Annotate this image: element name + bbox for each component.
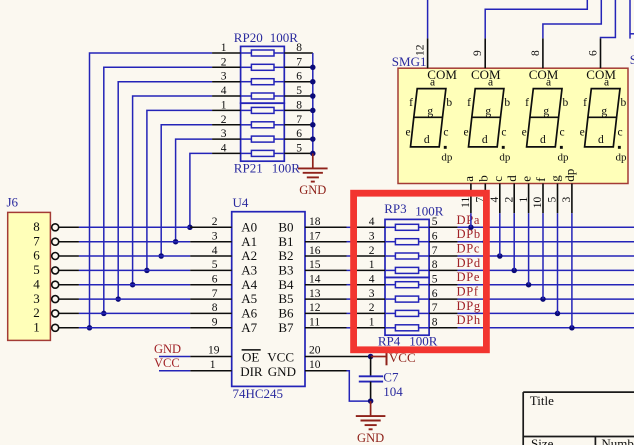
wire segment pin e down to net DPe xyxy=(528,213,530,285)
svg-text:3: 3 xyxy=(221,71,227,83)
J6 pin 1 xyxy=(33,319,79,334)
SMG1 segment pin 4 (c) xyxy=(489,176,505,213)
RP3 resistor element pin 3/6 xyxy=(357,231,458,245)
resistor pack RP3 xyxy=(384,201,444,278)
RP21 resistor element pin 2/7 xyxy=(212,114,313,128)
wire J6 pin 2 to RP20 pin 2 xyxy=(104,67,212,313)
svg-text:f: f xyxy=(409,97,413,109)
wire segment pin a down to net DPa xyxy=(470,213,472,227)
svg-text:b: b xyxy=(446,97,452,109)
svg-text:7: 7 xyxy=(296,114,302,126)
svg-text:a: a xyxy=(461,176,476,182)
svg-text:c: c xyxy=(443,127,448,139)
svg-text:DPh: DPh xyxy=(457,313,481,327)
svg-text:4: 4 xyxy=(221,142,227,154)
wire COM4 xyxy=(601,0,616,38)
RP3 resistor element pin 1/8 xyxy=(357,259,458,273)
svg-text:4: 4 xyxy=(33,276,40,291)
svg-text:4: 4 xyxy=(489,197,501,203)
U4 pin 4 A2 xyxy=(190,245,257,263)
junction DPc / display segment pin xyxy=(497,253,503,259)
RP4 resistor element pin 2/7 xyxy=(357,302,458,316)
svg-text:7: 7 xyxy=(33,233,40,248)
U4 pin 3 A1 xyxy=(190,231,257,249)
J6 pin 8 xyxy=(33,219,79,234)
svg-text:3: 3 xyxy=(221,128,227,140)
svg-text:19: 19 xyxy=(208,345,220,357)
svg-text:B1: B1 xyxy=(278,234,293,249)
svg-text:104: 104 xyxy=(383,384,403,399)
svg-text:g: g xyxy=(427,106,433,118)
wire RP20/RP21 output bus to GND xyxy=(312,53,314,153)
title block xyxy=(523,392,634,445)
svg-text:Size: Size xyxy=(531,436,554,445)
junction DPg / display segment pin xyxy=(555,311,561,317)
svg-text:8: 8 xyxy=(432,317,438,329)
7-segment digit 2 xyxy=(464,77,511,164)
svg-text:OE: OE xyxy=(242,350,259,365)
wire J6 pin 5 to RP21 pin 1 xyxy=(147,110,212,270)
ground GND (bottom) xyxy=(356,401,386,445)
svg-text:g: g xyxy=(485,106,491,118)
wire U4 B5 to RP pack xyxy=(347,298,357,300)
svg-text:RP20: RP20 xyxy=(234,30,263,45)
svg-text:2: 2 xyxy=(503,197,515,203)
svg-text:d: d xyxy=(504,175,519,182)
svg-text:6: 6 xyxy=(33,248,40,263)
U4 pin 11 B7 xyxy=(278,317,346,335)
RP20 resistor element pin 3/6 xyxy=(212,71,313,85)
SMG1 segment pin 5 (g) xyxy=(547,175,563,213)
U4 pin 6 A4 xyxy=(190,274,257,292)
svg-text:5: 5 xyxy=(296,85,302,97)
svg-text:7: 7 xyxy=(212,288,218,300)
J6 pin 4 xyxy=(33,276,79,291)
RP21 resistor element pin 1/8 xyxy=(212,99,313,113)
svg-text:d: d xyxy=(424,134,430,146)
wire net DPb xyxy=(458,241,634,243)
RP3 resistor element pin 4/5 xyxy=(357,216,458,230)
connector J6 xyxy=(7,194,51,340)
svg-text:DPc: DPc xyxy=(457,242,481,256)
wire COM3 xyxy=(543,0,601,38)
U4 pin 5 A3 xyxy=(190,259,257,277)
wire segment pin g down to net DPg xyxy=(557,213,559,313)
J6 pin 3 xyxy=(33,291,79,306)
wire U4 B1 to RP pack xyxy=(347,241,357,243)
SMG1 COM pin 9 xyxy=(471,38,501,81)
svg-text:VCC: VCC xyxy=(154,356,180,370)
svg-text:1: 1 xyxy=(369,317,375,329)
svg-text:6: 6 xyxy=(588,50,600,56)
svg-text:A0: A0 xyxy=(241,219,257,234)
7-segment digit 1 xyxy=(406,77,453,164)
svg-text:d: d xyxy=(598,134,604,146)
svg-text:5: 5 xyxy=(296,142,302,154)
svg-text:a: a xyxy=(430,77,435,89)
wire segment pin f down to net DPf xyxy=(542,213,544,299)
wire net DPe xyxy=(458,284,634,286)
U4 pin 7 A5 xyxy=(190,288,257,306)
wire J6 pin 7 to RP21 pin 3 xyxy=(176,139,213,242)
svg-text:15: 15 xyxy=(309,259,321,271)
svg-text:B7: B7 xyxy=(278,320,294,335)
svg-text:2: 2 xyxy=(221,56,227,68)
resistor pack RP20 xyxy=(234,30,298,103)
svg-text:4: 4 xyxy=(369,216,375,228)
svg-text:a: a xyxy=(546,77,551,89)
U4 pin 13 B5 xyxy=(278,288,346,306)
U4 pin 17 B1 xyxy=(278,231,346,249)
svg-text:U4: U4 xyxy=(233,195,249,210)
svg-text:8: 8 xyxy=(530,50,542,56)
display SMG1 body xyxy=(392,54,628,184)
svg-text:12: 12 xyxy=(309,302,321,314)
wire J6 pin 3 to U4 A5 xyxy=(79,298,190,300)
junction on J6 row xyxy=(101,311,107,317)
wire U4 B3 to RP pack xyxy=(347,269,357,271)
J6 pin 7 xyxy=(33,233,79,248)
svg-text:dp: dp xyxy=(499,151,511,163)
svg-text:7: 7 xyxy=(432,245,438,257)
wire U4 B6 to RP pack xyxy=(347,312,357,314)
svg-text:1: 1 xyxy=(221,99,227,111)
RP21 resistor element pin 4/5 xyxy=(212,142,313,156)
SMG1 segment pin 7 (b) xyxy=(475,175,491,213)
svg-text:e: e xyxy=(406,127,411,139)
svg-text:J6: J6 xyxy=(7,194,19,209)
svg-text:B4: B4 xyxy=(278,277,294,292)
wire U4 B0 to RP pack xyxy=(347,226,357,228)
RP4 resistor element pin 1/8 xyxy=(357,317,458,331)
RP4 resistor element pin 4/5 xyxy=(357,274,458,288)
wire U4 B2 to RP pack xyxy=(347,255,357,257)
svg-text:3: 3 xyxy=(369,288,375,300)
junction RP bus xyxy=(310,122,316,128)
svg-text:2: 2 xyxy=(369,245,375,257)
svg-text:4: 4 xyxy=(212,245,218,257)
svg-text:8: 8 xyxy=(296,99,302,111)
junction RP bus xyxy=(310,108,316,114)
svg-text:A6: A6 xyxy=(241,306,257,321)
svg-text:5: 5 xyxy=(432,216,438,228)
svg-text:6: 6 xyxy=(296,128,302,140)
junction RP bus xyxy=(310,65,316,71)
svg-text:e: e xyxy=(580,127,585,139)
svg-text:f: f xyxy=(467,97,471,109)
svg-text:3: 3 xyxy=(212,231,218,243)
wire J6 pin 5 to U4 A3 xyxy=(79,269,190,271)
U4 pin 8 A6 xyxy=(190,302,257,320)
svg-text:11: 11 xyxy=(460,197,472,208)
wire COM2 xyxy=(485,0,587,38)
svg-text:8: 8 xyxy=(432,259,438,271)
U4 pin 18 B0 xyxy=(278,216,346,234)
wire J6 pin 1 to U4 A7 xyxy=(79,327,190,329)
junction on J6 row xyxy=(173,239,179,245)
wire J6 pin 1 to RP20 pin 1 xyxy=(90,53,213,328)
svg-text:A1: A1 xyxy=(241,234,257,249)
wire net DPf xyxy=(458,298,634,300)
svg-text:7: 7 xyxy=(432,302,438,314)
RP20 resistor element pin 4/5 xyxy=(212,85,313,99)
svg-text:5: 5 xyxy=(432,274,438,286)
U4 pin 2 A0 xyxy=(190,216,257,234)
svg-text:S: S xyxy=(630,52,634,67)
svg-text:b: b xyxy=(504,97,510,109)
svg-text:C7: C7 xyxy=(383,369,399,384)
wire J6 pin 7 to U4 A1 xyxy=(79,241,190,243)
svg-text:DPe: DPe xyxy=(457,270,481,284)
power port VCC xyxy=(371,350,416,365)
svg-text:DPa: DPa xyxy=(457,213,481,227)
wire segment pin d down to net DPd xyxy=(513,213,515,270)
wire to SMG2 xyxy=(629,0,631,39)
svg-text:16: 16 xyxy=(309,245,321,257)
svg-text:g: g xyxy=(601,106,607,118)
svg-text:GND: GND xyxy=(268,364,296,379)
svg-text:DPg: DPg xyxy=(457,299,481,313)
svg-text:10: 10 xyxy=(309,359,321,371)
wire net GND to U4 OE xyxy=(159,356,190,358)
SMG1 segment pin 11 (a) xyxy=(460,176,476,213)
svg-text:20: 20 xyxy=(309,345,321,357)
svg-text:4: 4 xyxy=(221,85,227,97)
svg-text:9: 9 xyxy=(472,50,484,56)
svg-text:c: c xyxy=(501,127,506,139)
svg-text:DPf: DPf xyxy=(457,285,479,299)
svg-text:DPd: DPd xyxy=(457,256,481,270)
svg-text:1: 1 xyxy=(518,197,530,203)
svg-text:3: 3 xyxy=(369,231,375,243)
svg-text:b: b xyxy=(563,97,569,109)
svg-text:12: 12 xyxy=(415,44,427,56)
svg-text:dp: dp xyxy=(616,151,628,163)
SMG1 segment pin 1 (e) xyxy=(518,176,534,213)
svg-text:b: b xyxy=(475,175,490,182)
U4 pin 16 B2 xyxy=(278,245,346,263)
svg-text:8: 8 xyxy=(33,219,40,234)
svg-text:d: d xyxy=(540,134,546,146)
svg-text:1: 1 xyxy=(221,42,227,54)
wire segment pin dp down to net DPh xyxy=(571,213,573,328)
SMG1 COM pin 6 xyxy=(586,38,616,81)
junction RP bus xyxy=(310,79,316,85)
RP21 resistor element pin 3/6 xyxy=(212,128,313,142)
svg-text:11: 11 xyxy=(309,317,320,329)
junction RP bus xyxy=(310,151,316,157)
svg-text:A3: A3 xyxy=(241,263,257,278)
svg-text:DPb: DPb xyxy=(457,227,481,241)
junction on J6 row xyxy=(130,282,136,288)
junction RP bus xyxy=(310,136,316,142)
wire J6 pin 4 to U4 A4 xyxy=(79,284,190,286)
svg-text:B0: B0 xyxy=(278,219,293,234)
svg-text:A5: A5 xyxy=(241,291,257,306)
U4 pin 12 B6 xyxy=(278,302,346,320)
wire segment pin c down to net DPc xyxy=(499,213,501,256)
wire J6 pin 4 to RP20 pin 4 xyxy=(133,96,213,285)
SMG1 segment pin 2 (d) xyxy=(503,175,519,213)
junction DPh / display segment pin xyxy=(569,325,575,331)
svg-text:1: 1 xyxy=(210,359,216,371)
ground GND (top, RP bus) xyxy=(298,153,328,197)
svg-text:6: 6 xyxy=(296,71,302,83)
svg-text:100R: 100R xyxy=(270,30,299,45)
svg-text:c: c xyxy=(559,127,564,139)
wire net DPa xyxy=(458,226,634,228)
svg-text:1: 1 xyxy=(369,259,375,271)
svg-text:c: c xyxy=(490,176,505,182)
svg-text:B3: B3 xyxy=(278,263,293,278)
svg-text:5: 5 xyxy=(547,197,559,203)
wire segment pin b down to net DPb xyxy=(484,213,486,242)
U4 pin 14 B4 xyxy=(278,274,346,292)
wire U4 pin10 to GND node xyxy=(347,371,371,401)
svg-text:COM: COM xyxy=(529,67,559,82)
SMG1 segment pin 3 (dp) xyxy=(561,169,577,213)
svg-text:A2: A2 xyxy=(241,248,257,263)
svg-text:B6: B6 xyxy=(278,306,294,321)
red highlight box around RP3/RP4 xyxy=(354,193,487,350)
U4 pin 9 A7 xyxy=(190,317,257,335)
SMG1 segment pin 10 (f) xyxy=(532,177,548,213)
junction DPa / display segment pin xyxy=(468,225,474,231)
wire U4 B4 to RP pack xyxy=(347,284,357,286)
resistor pack RP21 xyxy=(234,103,300,175)
svg-text:10: 10 xyxy=(532,197,544,209)
wire net DPh xyxy=(458,327,634,329)
svg-text:COM: COM xyxy=(471,67,501,82)
capacitor C7 104 xyxy=(359,357,404,402)
junction on J6 row xyxy=(187,225,193,231)
junction VCC node xyxy=(368,354,374,360)
svg-text:Title: Title xyxy=(530,393,554,408)
wire net DPd xyxy=(458,269,634,271)
junction DPe / display segment pin xyxy=(526,282,532,288)
wire net DPg xyxy=(458,312,634,314)
svg-text:2: 2 xyxy=(369,302,375,314)
7-segment digit 3 xyxy=(522,77,569,164)
svg-text:f: f xyxy=(525,97,529,109)
U4 pin 19 OE xyxy=(190,345,261,365)
svg-text:e: e xyxy=(464,127,469,139)
svg-text:5: 5 xyxy=(33,262,40,277)
svg-text:c: c xyxy=(617,127,622,139)
wire U4 pin20 to VCC node xyxy=(347,356,371,358)
svg-text:DIR: DIR xyxy=(240,364,263,379)
svg-text:dp: dp xyxy=(562,169,577,182)
junction DPf / display segment pin xyxy=(540,296,546,302)
junction GND node xyxy=(368,398,374,404)
svg-text:B2: B2 xyxy=(278,248,293,263)
wire net VCC to U4 DIR xyxy=(159,370,190,372)
U4 pin 1 DIR xyxy=(190,359,263,379)
svg-text:6: 6 xyxy=(432,231,438,243)
svg-text:Number: Number xyxy=(601,436,634,445)
wire J6 pin 6 to U4 A2 xyxy=(79,255,190,257)
svg-text:g: g xyxy=(543,106,549,118)
svg-text:GND: GND xyxy=(154,342,181,356)
svg-text:8: 8 xyxy=(212,302,218,314)
svg-text:dp: dp xyxy=(558,151,570,163)
RP20 resistor element pin 1/8 xyxy=(212,42,313,56)
RP20 resistor element pin 2/7 xyxy=(212,56,313,70)
svg-text:3: 3 xyxy=(561,197,573,203)
svg-text:e: e xyxy=(519,176,534,182)
svg-text:7: 7 xyxy=(296,56,302,68)
wire COM1 to top edge xyxy=(427,0,429,38)
junction RP bus xyxy=(310,93,316,99)
svg-text:RP3: RP3 xyxy=(384,201,406,216)
resistor pack RP4 xyxy=(378,277,438,348)
svg-text:1: 1 xyxy=(33,319,40,334)
svg-text:e: e xyxy=(522,127,527,139)
J6 pin 2 xyxy=(33,305,79,320)
U4 pin 15 B3 xyxy=(278,259,346,277)
SMG1 COM pin 12 xyxy=(415,38,458,81)
svg-text:GND: GND xyxy=(357,431,384,445)
svg-text:74HC245: 74HC245 xyxy=(233,386,284,401)
svg-text:8: 8 xyxy=(296,42,302,54)
junction DPb / display segment pin xyxy=(483,239,489,245)
RP3 resistor element pin 2/7 xyxy=(357,245,458,259)
J6 pin 6 xyxy=(33,248,79,263)
junction on J6 row xyxy=(158,253,164,259)
svg-text:6: 6 xyxy=(212,274,218,286)
svg-text:A7: A7 xyxy=(241,320,257,335)
RP4 resistor element pin 3/6 xyxy=(357,288,458,302)
svg-text:13: 13 xyxy=(309,288,321,300)
wire J6 pin 8 to RP21 pin 4 xyxy=(190,153,212,227)
svg-text:A4: A4 xyxy=(241,277,257,292)
svg-text:f: f xyxy=(583,97,587,109)
svg-text:b: b xyxy=(621,97,627,109)
svg-text:5: 5 xyxy=(212,259,218,271)
svg-text:B5: B5 xyxy=(278,291,293,306)
svg-text:a: a xyxy=(488,77,493,89)
svg-text:9: 9 xyxy=(212,317,218,329)
svg-text:VCC: VCC xyxy=(267,350,294,365)
junction on J6 row xyxy=(87,325,93,331)
svg-text:a: a xyxy=(604,77,609,89)
svg-text:17: 17 xyxy=(309,231,321,243)
wire J6 pin 2 to U4 A6 xyxy=(79,312,190,314)
svg-text:4: 4 xyxy=(369,274,375,286)
U4 pin 10 GND xyxy=(268,359,347,379)
svg-text:f: f xyxy=(533,177,548,182)
svg-text:g: g xyxy=(548,175,563,182)
wire J6 pin 6 to RP21 pin 2 xyxy=(161,125,212,256)
J6 pin 5 xyxy=(33,262,79,277)
junction on J6 row xyxy=(115,296,121,302)
svg-text:6: 6 xyxy=(432,288,438,300)
U4 pin 20 VCC xyxy=(267,345,346,365)
svg-text:18: 18 xyxy=(309,216,321,228)
svg-text:3: 3 xyxy=(33,291,40,306)
7-segment digit 4 xyxy=(580,77,627,164)
svg-text:GND: GND xyxy=(299,183,326,197)
svg-text:d: d xyxy=(482,134,488,146)
SMG1 COM pin 8 xyxy=(529,38,559,81)
op-amp U4 74HC245 body xyxy=(232,195,305,401)
svg-text:RP21: RP21 xyxy=(234,161,263,176)
svg-text:2: 2 xyxy=(212,216,218,228)
wire J6 pin 8 to U4 A0 xyxy=(79,226,190,228)
junction on J6 row xyxy=(144,268,150,274)
wire U4 B7 to RP pack xyxy=(347,327,357,329)
wire net DPc xyxy=(458,255,634,257)
